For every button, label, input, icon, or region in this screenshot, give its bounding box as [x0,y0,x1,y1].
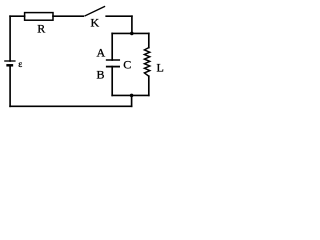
battery cell long plate [5,60,15,62]
inductor L zigzag [144,48,149,77]
capacitor C top plate [107,59,120,61]
svg-text:ε: ε [18,60,22,70]
wire resistor to switch [53,15,83,17]
svg-text:A: A [97,46,106,60]
wire capacitor branch upper [111,33,113,60]
wire inductor branch lower [148,76,150,95]
wire left vertical upper [9,16,11,61]
svg-text:R: R [37,22,45,36]
wire parallel bottom bar [112,94,149,96]
wire switch to top-right corner [106,15,132,17]
battery cell short thick plate [8,64,12,67]
node junction top [130,32,134,36]
wire bottom horizontal [10,105,132,107]
wire parallel top bar [112,32,149,34]
svg-text:B: B [97,68,105,82]
capacitor C bottom plate [107,66,119,68]
svg-text:L: L [157,60,164,74]
switch K blade [85,7,105,16]
svg-text:C: C [123,57,131,71]
wire top-left horizontal [10,15,25,17]
wire junction drop to bottom [131,95,133,106]
wire right vertical upper [131,16,133,33]
wire inductor branch upper [148,33,150,47]
wire capacitor branch lower [111,67,113,96]
resistor R [25,13,53,21]
node junction bottom [130,94,134,98]
svg-text:K: K [91,15,100,29]
wire left vertical lower [9,66,11,106]
